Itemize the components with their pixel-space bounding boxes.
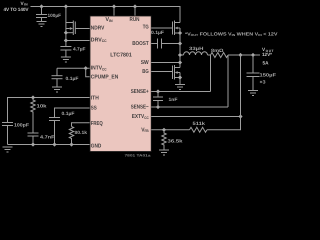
- inductor L1 33uH: [180, 52, 211, 55]
- svg-text:4.7µF: 4.7µF: [73, 47, 86, 52]
- node EXTVCC-fb vertical: [238, 114, 242, 118]
- svg-text:SW: SW: [141, 60, 150, 66]
- svg-text:*VOUT FOLLOWS VIN WHEN VIN < 1: *VOUT FOLLOWS VIN WHEN VIN < 12V: [185, 31, 279, 37]
- svg-text:VIN: VIN: [105, 17, 113, 23]
- svg-text:ITH: ITH: [91, 96, 99, 102]
- capacitor C1 100uF: [36, 7, 47, 22]
- svg-text:4.7nF: 4.7nF: [40, 135, 55, 140]
- capacitor C9 150uF output: [247, 55, 260, 91]
- node SENSE+ cap: [156, 89, 160, 93]
- capacitor C8 1nF: [153, 92, 163, 108]
- wire SW: [151, 62, 180, 64]
- resistor R5 36.5k: [162, 130, 166, 150]
- wire SENSE-: [151, 106, 228, 108]
- wire SENSE+: [151, 91, 210, 93]
- wire VFB: [151, 129, 189, 131]
- node rail-comp: [31, 142, 35, 146]
- svg-text:EXTVCC: EXTVCC: [132, 114, 149, 120]
- transistor Q2 (top NMOS): [173, 7, 181, 68]
- svg-text:0.1µF: 0.1µF: [62, 111, 75, 116]
- svg-text:10k: 10k: [37, 104, 47, 109]
- svg-text:GND: GND: [91, 143, 102, 149]
- ground C9: [248, 91, 258, 96]
- ground C2: [61, 57, 71, 62]
- wire NDRV gate: [75, 28, 90, 30]
- capacitor C5 4.7nF: [28, 133, 39, 145]
- node rail-C1: [39, 4, 43, 8]
- capacitor C3 0.1uF INTVCC: [52, 68, 63, 87]
- resistor R2 80.1k: [69, 127, 73, 145]
- wire ITH: [8, 98, 91, 123]
- svg-text:100µF: 100µF: [48, 13, 62, 18]
- svg-text:SS: SS: [91, 106, 97, 112]
- resistor R3 8mOhm sense: [211, 53, 229, 58]
- transistor Q1 (NDRV external NMOS): [66, 7, 75, 41]
- svg-text:100pF: 100pF: [14, 123, 29, 128]
- capacitor C2 4.7uF: [60, 41, 71, 58]
- capacitor C7 0.1uF boost: [158, 39, 181, 49]
- node SW pin: [178, 60, 182, 64]
- svg-text:×3: ×3: [260, 80, 266, 85]
- transistor Q3 (bottom NMOS): [173, 65, 181, 84]
- node rail-FREQ res: [69, 142, 73, 146]
- wire kelvin sense+ tap: [210, 55, 212, 92]
- text labels (outside IC): [4, 1, 279, 158]
- svg-text:7801 TA01a: 7801 TA01a: [125, 154, 151, 158]
- wire kelvin sense- tap: [227, 55, 229, 107]
- svg-text:80.1k: 80.1k: [75, 130, 88, 135]
- ground C1: [37, 22, 47, 27]
- svg-text:0.1µF: 0.1µF: [151, 30, 164, 35]
- wire FREQ: [72, 123, 91, 127]
- svg-text:SENSE−: SENSE−: [131, 105, 150, 111]
- wire CPUMP_EN tie: [86, 68, 90, 77]
- node SENSE- cap: [156, 105, 160, 109]
- node ITH comp junction: [31, 95, 35, 99]
- node rail-Q1 drain: [64, 4, 68, 8]
- svg-text:4V TO 140V: 4V TO 140V: [4, 7, 30, 12]
- node SW-boost: [178, 41, 182, 45]
- svg-text:8mΩ: 8mΩ: [211, 48, 224, 53]
- node Q1 source tie: [64, 31, 68, 35]
- capacitor C6 0.1uF SS: [49, 118, 60, 145]
- svg-text:DRVCC: DRVCC: [91, 37, 107, 43]
- node Q3 source tie: [178, 75, 182, 79]
- node VOUT-fb: [238, 53, 242, 57]
- ground C3: [52, 87, 62, 92]
- svg-text:511k: 511k: [193, 121, 206, 126]
- svg-text:TG: TG: [143, 24, 149, 30]
- wire VIN top rail: [31, 7, 181, 23]
- ground Q3: [175, 85, 185, 90]
- capacitor C4 100pF: [2, 123, 13, 145]
- wire BOOST: [151, 43, 157, 45]
- node Q2 source tie: [178, 31, 182, 35]
- svg-text:CPUMP_EN: CPUMP_EN: [91, 74, 119, 80]
- wire TG: [151, 27, 172, 29]
- svg-text:SENSE+: SENSE+: [131, 89, 150, 95]
- wire RUN pin drop: [134, 7, 136, 17]
- text pin labels inside IC: [91, 17, 150, 149]
- wire VOUT line: [228, 54, 260, 56]
- wire BG: [151, 71, 172, 73]
- node rail-VIN pin: [112, 4, 116, 8]
- svg-text:150µF: 150µF: [260, 73, 277, 78]
- svg-text:1nF: 1nF: [169, 97, 178, 102]
- svg-text:INTVCC: INTVCC: [91, 66, 107, 72]
- svg-text:FREQ: FREQ: [91, 121, 103, 127]
- svg-text:5A: 5A: [263, 60, 270, 65]
- wire VIN pin drop: [113, 7, 115, 17]
- svg-text:LTC7801: LTC7801: [110, 53, 132, 59]
- node VFB divider: [162, 128, 166, 132]
- svg-text:0.1µF: 0.1µF: [66, 76, 79, 81]
- svg-text:12V*: 12V*: [262, 52, 272, 57]
- wire ground rail: [8, 144, 91, 146]
- node rail-SS cap: [52, 142, 56, 146]
- ground R5: [159, 150, 169, 155]
- svg-text:BOOST: BOOST: [132, 41, 149, 47]
- svg-text:NDRV: NDRV: [91, 25, 105, 31]
- ground rail symbol: [3, 147, 13, 152]
- wire VFB to VOUT: [207, 55, 241, 130]
- svg-text:36.5k: 36.5k: [168, 138, 183, 143]
- node DRVCC-C2: [64, 38, 68, 42]
- svg-text:VFB: VFB: [141, 127, 149, 133]
- op-amp U1 LTC7801 body: [90, 16, 151, 152]
- svg-text:RUN: RUN: [130, 17, 140, 23]
- node VOUT-cap: [251, 53, 255, 57]
- svg-text:BG: BG: [142, 69, 149, 75]
- resistor R1 10k: [31, 98, 35, 134]
- node INTVCC junction: [84, 66, 88, 70]
- svg-text:VIN: VIN: [21, 1, 29, 7]
- wire EXTVCC: [151, 116, 240, 118]
- svg-text:33µH: 33µH: [189, 46, 204, 51]
- wire SS: [55, 108, 91, 118]
- node rail-RUN pin: [133, 4, 137, 8]
- wire INTVCC: [57, 67, 90, 69]
- node SW-L: [178, 53, 182, 57]
- wire DRVCC: [66, 40, 90, 42]
- resistor R4 511k: [190, 127, 208, 132]
